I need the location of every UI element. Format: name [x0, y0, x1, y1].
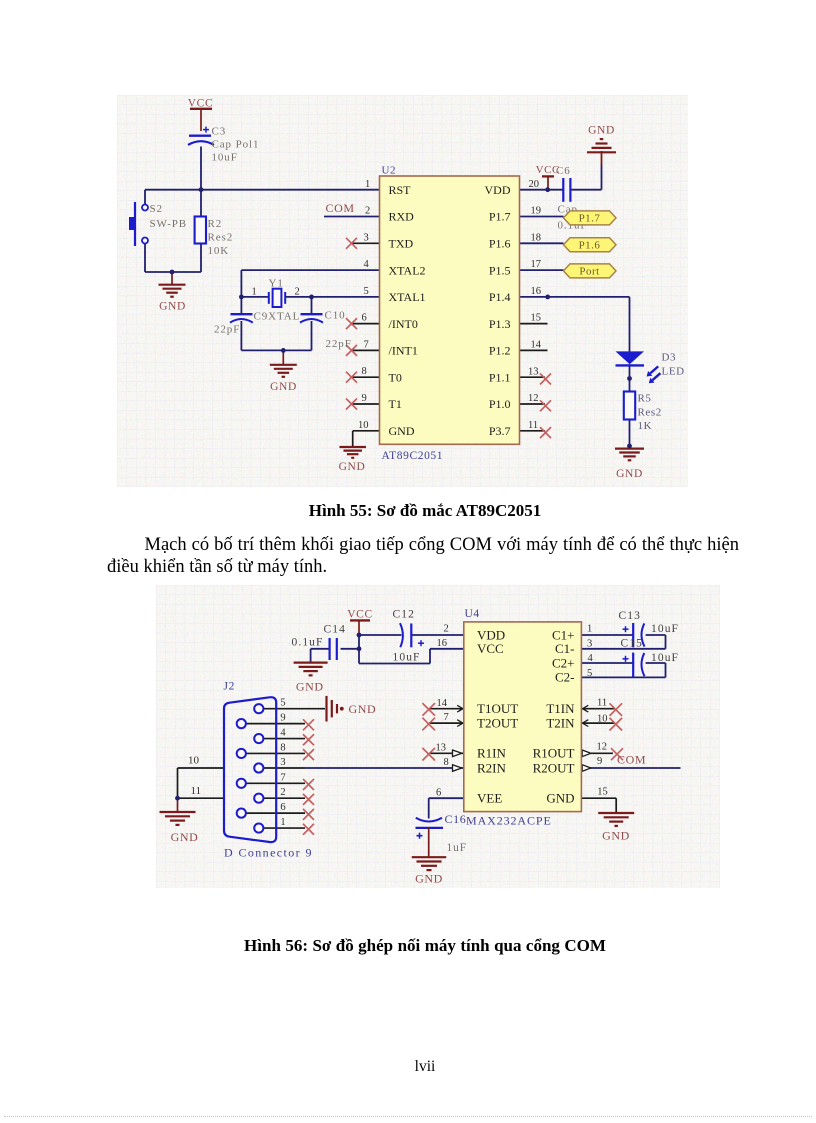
svg-text:19: 19	[531, 206, 542, 217]
svg-text:12: 12	[528, 393, 539, 404]
svg-text:T1: T1	[389, 397, 402, 411]
svg-text:1uF: 1uF	[447, 842, 468, 854]
svg-text:R1OUT: R1OUT	[533, 746, 575, 761]
svg-text:U4: U4	[465, 608, 480, 620]
svg-text:11: 11	[191, 785, 202, 797]
svg-text:GND: GND	[415, 871, 443, 885]
svg-text:8: 8	[362, 366, 367, 377]
svg-text:Res2: Res2	[208, 232, 234, 244]
svg-text:VCC: VCC	[536, 164, 560, 176]
svg-text:10uF: 10uF	[393, 652, 421, 664]
svg-text:10K: 10K	[208, 245, 230, 257]
svg-text:20: 20	[529, 179, 540, 190]
svg-text:17: 17	[531, 259, 542, 270]
svg-text:16: 16	[437, 638, 448, 649]
svg-text:1: 1	[252, 287, 257, 298]
svg-text:XTAL1: XTAL1	[389, 290, 426, 304]
svg-text:6: 6	[280, 802, 285, 813]
svg-text:U2: U2	[382, 165, 397, 177]
svg-text:P1.6: P1.6	[489, 237, 511, 251]
svg-text:R2OUT: R2OUT	[533, 760, 575, 775]
svg-text:0.1uF: 0.1uF	[292, 637, 324, 649]
svg-text:4: 4	[588, 653, 594, 664]
svg-text:2: 2	[365, 206, 370, 217]
svg-text:1K: 1K	[638, 420, 653, 432]
svg-text:J2: J2	[224, 681, 235, 693]
svg-text:P1.3: P1.3	[489, 317, 511, 331]
svg-text:C9XTAL: C9XTAL	[254, 311, 301, 323]
svg-text:10: 10	[188, 755, 200, 767]
svg-text:6: 6	[436, 788, 441, 799]
svg-text:Port: Port	[579, 266, 599, 278]
svg-text:C14: C14	[324, 624, 346, 636]
svg-text:C10: C10	[325, 310, 346, 322]
svg-text:COM: COM	[617, 753, 646, 767]
svg-text:5: 5	[280, 698, 285, 709]
svg-text:1: 1	[587, 624, 592, 635]
svg-text:C15: C15	[621, 638, 643, 650]
svg-text:GND: GND	[159, 301, 186, 313]
svg-text:Res2: Res2	[638, 407, 662, 419]
svg-text:C1-: C1-	[555, 641, 575, 656]
svg-text:P1.4: P1.4	[489, 290, 511, 304]
svg-text:Cap Pol1: Cap Pol1	[212, 139, 260, 151]
svg-text:P3.7: P3.7	[489, 424, 511, 438]
svg-text:T1IN: T1IN	[546, 701, 575, 716]
svg-text:R2: R2	[208, 218, 223, 230]
svg-text:R5: R5	[638, 393, 652, 405]
svg-text:VEE: VEE	[477, 791, 502, 806]
svg-text:T2IN: T2IN	[546, 715, 575, 730]
svg-text:8: 8	[280, 742, 285, 753]
svg-text:P1.7: P1.7	[579, 213, 601, 225]
svg-text:8: 8	[444, 757, 449, 768]
svg-text:P1.5: P1.5	[489, 263, 511, 277]
svg-text:XTAL2: XTAL2	[389, 263, 426, 277]
svg-text:6: 6	[362, 313, 367, 324]
svg-text:D Connector 9: D Connector 9	[224, 846, 313, 860]
svg-text:12: 12	[597, 742, 608, 753]
svg-text:7: 7	[444, 712, 449, 723]
svg-text:T0: T0	[389, 370, 402, 384]
svg-text:SW-PB: SW-PB	[150, 218, 188, 230]
svg-text:1: 1	[365, 179, 370, 190]
svg-text:3: 3	[364, 233, 369, 244]
svg-text:16: 16	[531, 286, 542, 297]
svg-text:1: 1	[280, 817, 285, 828]
svg-text:13: 13	[436, 743, 447, 754]
svg-text:15: 15	[597, 787, 608, 798]
svg-text:14: 14	[531, 340, 542, 351]
svg-text:C13: C13	[619, 610, 641, 622]
svg-text:S2: S2	[150, 203, 163, 215]
svg-text:15: 15	[531, 313, 542, 324]
svg-text:P1.1: P1.1	[489, 370, 511, 384]
svg-text:2: 2	[280, 787, 285, 798]
svg-text:C1+: C1+	[552, 627, 575, 642]
svg-text:GND: GND	[389, 424, 415, 438]
svg-text:7: 7	[280, 772, 285, 783]
svg-text:10uF: 10uF	[651, 623, 679, 635]
svg-text:10uF: 10uF	[212, 152, 238, 164]
svg-text:R1IN: R1IN	[477, 746, 507, 761]
svg-text:2: 2	[444, 624, 449, 635]
svg-text:/INT0: /INT0	[389, 317, 418, 331]
svg-text:GND: GND	[602, 829, 630, 843]
svg-text:P1.0: P1.0	[489, 397, 511, 411]
svg-text:11: 11	[597, 698, 607, 709]
svg-text:3: 3	[280, 757, 285, 768]
svg-text:RXD: RXD	[389, 210, 415, 224]
svg-text:VCC: VCC	[188, 98, 213, 110]
svg-text:C2+: C2+	[552, 655, 575, 670]
svg-text:C3: C3	[212, 126, 227, 138]
svg-text:13: 13	[528, 367, 539, 378]
svg-text:14: 14	[437, 698, 448, 709]
svg-text:4: 4	[364, 259, 370, 270]
svg-text:GND: GND	[171, 830, 199, 844]
svg-text:VDD: VDD	[477, 627, 505, 642]
svg-text:5: 5	[364, 286, 369, 297]
svg-text:GND: GND	[546, 791, 574, 806]
svg-text:10: 10	[597, 714, 608, 725]
svg-text:VDD: VDD	[485, 183, 511, 197]
svg-text:5: 5	[587, 668, 592, 679]
svg-text:2: 2	[295, 287, 300, 298]
svg-text:GND: GND	[349, 702, 377, 716]
svg-text:22pF: 22pF	[214, 324, 240, 336]
svg-text:C16: C16	[445, 812, 467, 826]
svg-text:9: 9	[597, 756, 602, 767]
svg-text:GND: GND	[616, 468, 643, 480]
svg-text:/INT1: /INT1	[389, 344, 418, 358]
svg-text:4: 4	[280, 728, 286, 739]
svg-text:GND: GND	[588, 125, 615, 137]
svg-text:AT89C2051: AT89C2051	[382, 450, 444, 462]
svg-text:C2-: C2-	[555, 670, 575, 685]
svg-text:10: 10	[358, 420, 369, 431]
svg-text:RST: RST	[389, 183, 412, 197]
svg-text:9: 9	[362, 393, 367, 404]
svg-text:10uF: 10uF	[651, 652, 679, 664]
svg-text:C12: C12	[393, 609, 415, 621]
svg-text:11: 11	[528, 420, 538, 431]
svg-text:R2IN: R2IN	[477, 760, 507, 775]
svg-text:7: 7	[364, 340, 369, 351]
svg-text:18: 18	[531, 233, 542, 244]
svg-text:3: 3	[587, 639, 592, 650]
svg-text:LED: LED	[662, 366, 685, 378]
svg-text:GND: GND	[296, 680, 324, 694]
svg-text:P1.7: P1.7	[489, 210, 511, 224]
svg-text:VCC: VCC	[477, 641, 504, 656]
svg-text:Y1: Y1	[269, 278, 284, 290]
svg-text:9: 9	[280, 713, 285, 724]
svg-text:D3: D3	[662, 352, 677, 364]
svg-text:T1OUT: T1OUT	[477, 701, 518, 716]
svg-text:GND: GND	[339, 461, 366, 473]
svg-text:GND: GND	[270, 381, 297, 393]
svg-text:22pF: 22pF	[326, 338, 352, 350]
svg-text:TXD: TXD	[389, 237, 414, 251]
svg-text:VCC: VCC	[347, 609, 372, 621]
svg-text:P1.6: P1.6	[579, 240, 601, 252]
svg-text:COM: COM	[326, 201, 355, 215]
svg-text:P1.2: P1.2	[489, 344, 511, 358]
svg-text:MAX232ACPE: MAX232ACPE	[466, 814, 552, 828]
svg-text:T2OUT: T2OUT	[477, 715, 518, 730]
